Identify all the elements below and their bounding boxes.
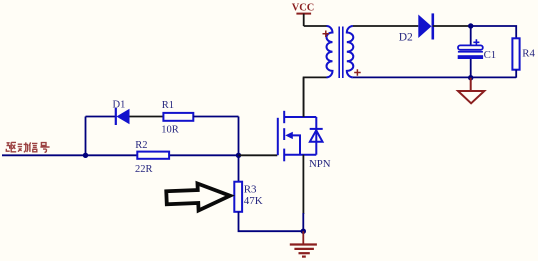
polarity mark + primary xyxy=(323,31,330,38)
wire VCC to primary top xyxy=(304,25,327,27)
node junction left xyxy=(83,153,88,158)
svg-text:22R: 22R xyxy=(135,164,153,175)
ground (right, triangle) xyxy=(458,78,484,104)
annotation arrow pointing at R3 xyxy=(166,182,231,212)
wire source to junction xyxy=(302,213,304,231)
svg-text:D2: D2 xyxy=(399,31,413,43)
node junction C1 top xyxy=(468,23,473,28)
svg-text:D1: D1 xyxy=(113,100,126,111)
wire right vertical upper xyxy=(238,117,240,156)
svg-text:VCC: VCC xyxy=(292,3,315,14)
svg-text:R2: R2 xyxy=(135,140,147,151)
svg-text:R1: R1 xyxy=(162,100,174,111)
wire D1 to R1 xyxy=(130,116,164,118)
wire junction to R4 top xyxy=(471,26,517,38)
diode D1 xyxy=(113,100,130,125)
svg-text:NPN: NPN xyxy=(309,158,331,170)
wire R1 to right corner xyxy=(193,116,238,118)
wire main line left xyxy=(2,154,137,156)
svg-text:R3: R3 xyxy=(244,184,257,196)
wire primary bottom xyxy=(304,77,327,117)
power VCC xyxy=(292,3,315,26)
svg-text:10R: 10R xyxy=(161,125,179,136)
wire gate lead xyxy=(239,154,278,156)
wire source pin xyxy=(302,155,304,214)
transformer T1 xyxy=(327,26,354,78)
node junction source/ground xyxy=(301,229,306,234)
wire R3 bottom xyxy=(239,212,304,231)
wire right vertical to R3 xyxy=(238,155,240,181)
wire top branch to D1 xyxy=(86,116,116,118)
wire secondary bottom xyxy=(353,76,516,78)
resistor R3 47K xyxy=(234,182,262,212)
svg-text:47K: 47K xyxy=(244,195,263,207)
wire D2 to R4 top xyxy=(433,25,471,27)
capacitor C1 xyxy=(458,26,497,78)
ground (bottom, bars) xyxy=(290,231,317,256)
node junction C1 bottom xyxy=(468,75,473,80)
diode D2 xyxy=(399,13,433,43)
wire secondary top to D2 xyxy=(353,25,418,27)
resistor R2 22R xyxy=(135,140,169,175)
node junction mid xyxy=(236,153,241,158)
resistor R1 10R xyxy=(161,100,193,136)
svg-text:C1: C1 xyxy=(484,49,497,61)
transistor Q1 NMOS (NPN label) xyxy=(278,111,323,162)
wire main line right of R2 xyxy=(169,154,238,156)
resistor R4 xyxy=(512,38,535,77)
net label 驱动信号 (drive signal, hand-drawn glyphs) xyxy=(6,142,49,152)
polarity mark + secondary xyxy=(354,69,361,76)
svg-text:R4: R4 xyxy=(522,48,535,60)
wire left vertical xyxy=(85,117,87,156)
wire drain pin xyxy=(303,77,305,117)
